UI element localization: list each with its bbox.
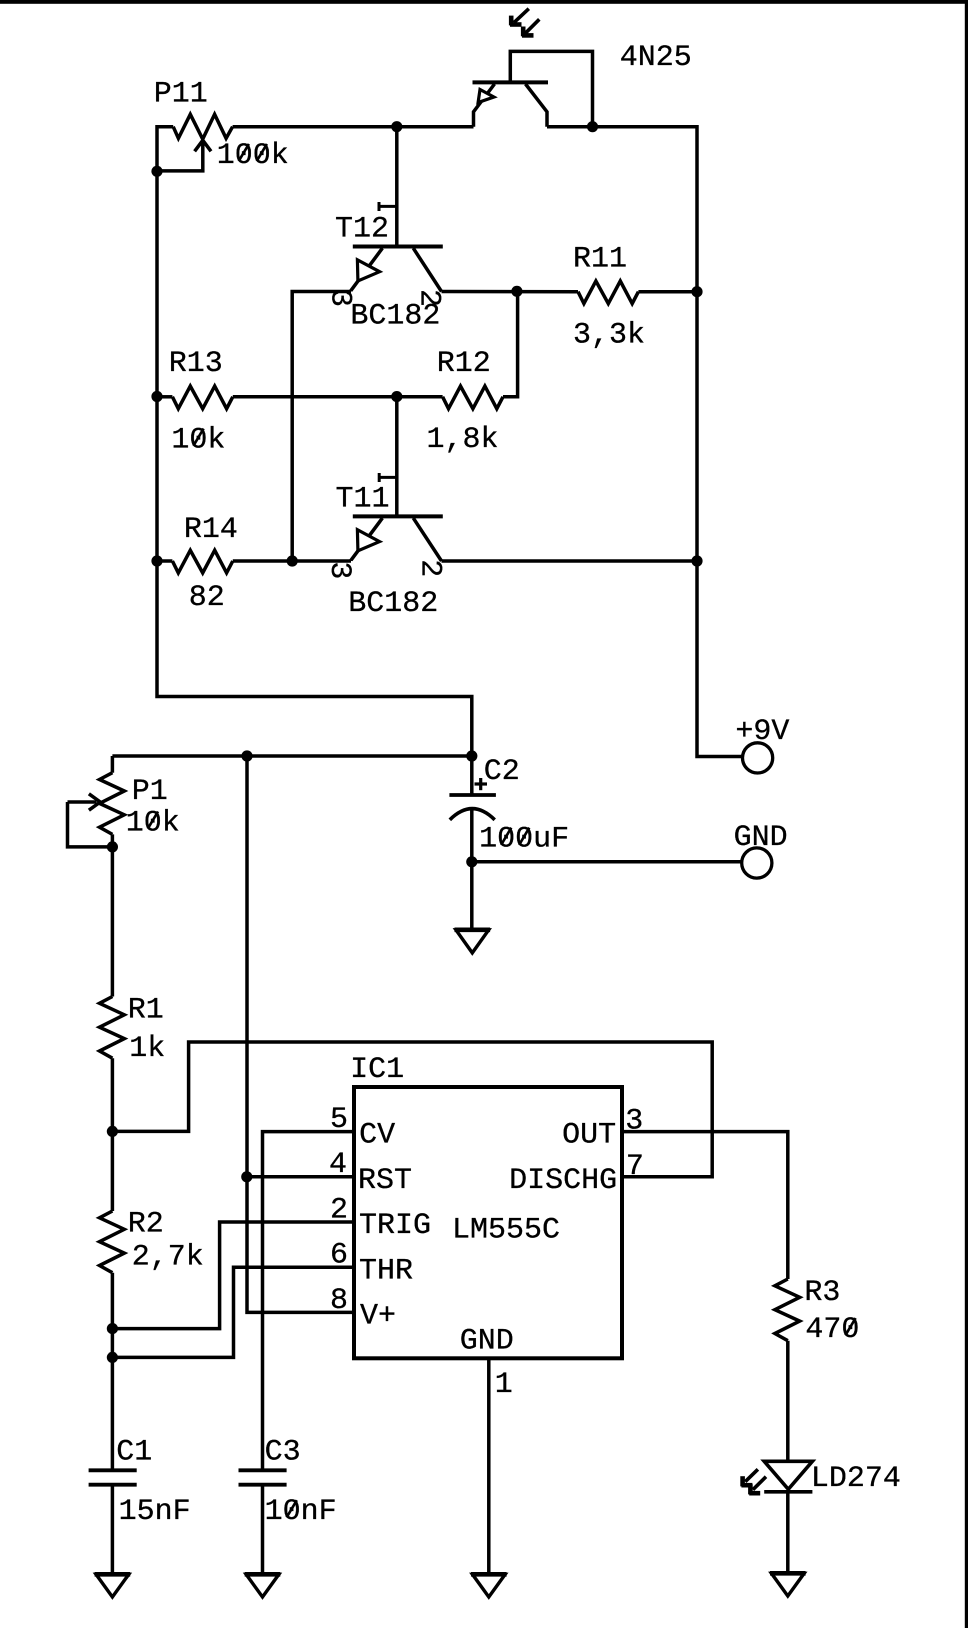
T12 emitter lead [351,248,382,291]
junction dot T12 base node [391,121,402,132]
svg-text:100k: 100k [217,139,289,173]
svg-text:R12: R12 [437,347,491,381]
svg-text:CV: CV [359,1119,395,1153]
resistor R12 zigzag [443,386,503,409]
svg-text:THR: THR [359,1254,413,1288]
junction dot T11 collector / rail [691,555,702,566]
svg-text:DISCHG: DISCHG [509,1164,617,1198]
wire R13 to T11 base node to R12 [233,395,443,399]
wire RST pin stub [247,1175,354,1179]
svg-text:LD274: LD274 [811,1462,901,1496]
terminal circle +9V [743,743,773,773]
potentiometer P1 top lead [111,756,115,773]
P1 bottom lead [111,834,115,996]
junction dot supply vertical node [241,750,252,761]
T11 base tick [378,473,381,482]
P11 wiper tie wire [157,142,203,171]
resistor R13 zigzag [172,386,232,409]
4N25 collector lead [526,84,548,127]
svg-text:3: 3 [625,1105,643,1139]
capacitor C3 top plate [239,1468,287,1472]
svg-text:TRIG: TRIG [359,1209,431,1243]
junction dot RST junction [241,1171,252,1182]
T11 pin number 3 (rotated) [322,561,356,579]
ground symbol under IC [472,1574,505,1597]
svg-text:R14: R14 [184,513,238,547]
R1 bottom lead [111,1058,115,1211]
IC1 box [354,1087,622,1358]
T11 emitter arrow [357,530,379,551]
svg-text:GND: GND [734,821,788,855]
svg-text:3,3k: 3,3k [573,319,645,353]
potentiometer P1 zigzag [100,773,125,835]
junction dot C2 top node [466,750,477,761]
LED light arrow 1 head [740,1476,745,1486]
wire OUT pin to R3 [622,1132,788,1279]
svg-text:4N25: 4N25 [620,41,692,75]
T12 pin number 3 (rotated) [322,289,356,307]
P1 wiper arrow shaft [68,800,97,804]
capacitor C1 bottom plate [89,1483,137,1487]
slash in second zero of 100uF [519,828,529,845]
slash in zero of 470 [845,1318,855,1335]
junction dot R1/R2 node [107,1126,118,1137]
svg-text:2: 2 [330,1193,348,1227]
svg-text:+9V: +9V [735,715,789,749]
svg-text:15nF: 15nF [119,1495,191,1529]
wire CV pin stub to C3 [263,1132,355,1471]
junction dot R13 left / rail [151,391,162,402]
svg-text:6: 6 [330,1239,348,1273]
LED LD274 triangle [764,1461,812,1489]
svg-text:82: 82 [189,581,225,615]
junction dot T12 emitter / R14 wire [287,555,298,566]
svg-text:1: 1 [495,1368,513,1402]
P11 wiper arrowhead [195,140,211,151]
R3 bottom lead [786,1341,790,1462]
svg-text:7: 7 [626,1150,644,1184]
wire T11 collector to right rail [442,559,698,563]
svg-text:T12: T12 [335,212,389,246]
capacitor C2 top plate [449,793,496,797]
slash in first zero of 100k [239,144,249,161]
svg-text:V+: V+ [360,1300,396,1334]
wire supply node down to V+ pin [247,756,354,1312]
svg-text:OUT: OUT [562,1119,616,1153]
svg-text:4: 4 [329,1148,347,1182]
svg-text:1,8k: 1,8k [427,423,499,457]
capacitor C2 top lead [470,756,474,795]
junction dot THR junction [107,1352,118,1363]
T11 base wire from R13/R12 node [395,397,399,517]
LED light arrow 2 shaft [753,1477,766,1490]
svg-text:10k: 10k [126,807,180,841]
wire THR link [112,1267,354,1357]
T11 pin number 2 (rotated) [412,559,446,577]
svg-text:IC1: IC1 [350,1053,404,1087]
svg-text:2,7k: 2,7k [132,1241,204,1275]
svg-text:R1: R1 [128,994,164,1028]
wire 4N25 collector to right rail and down to +9V [547,127,743,757]
T12 pin number 2 (rotated) [412,289,446,307]
capacitor C1 top plate [89,1468,137,1472]
resistor R14 zigzag [172,550,232,573]
T11 base tick horizontal [379,476,397,479]
slash in second zero of 100k [257,144,267,161]
junction dot T12 collector / R12 node [511,286,522,297]
junction dot R11 right / rail [691,286,702,297]
T11 collector lead [413,518,441,561]
C2 plus sign [475,782,488,785]
wire T12 emitter to R14 node [292,292,351,562]
wire supply node horizontal [112,754,471,758]
svg-text:R13: R13 [169,347,223,381]
R2 bottom lead [111,1273,115,1471]
svg-text:R2: R2 [128,1208,164,1242]
svg-text:P11: P11 [154,77,208,111]
ground symbol under C1 [96,1574,129,1597]
slash in zero of 10nF [287,1500,297,1517]
svg-text:P1: P1 [132,775,168,809]
svg-text:GND: GND [460,1325,514,1359]
slash in zero of 10k R13 [193,429,203,446]
svg-text:C3: C3 [265,1436,301,1470]
wire R11 right end [638,290,697,294]
transistor T11 base bar [353,514,443,518]
wire TRIG link [112,1222,354,1329]
C2 ground lead [470,862,474,930]
wire R14 to T11 emitter [233,559,351,563]
resistor R11 zigzag [578,281,638,304]
svg-text:3: 3 [322,561,356,579]
svg-text:8: 8 [330,1284,348,1318]
border top bar [0,0,968,4]
svg-text:LM555C: LM555C [452,1214,560,1248]
wire T12 collector to R11 [442,290,579,294]
C1 bottom lead [111,1485,115,1574]
LED light arrow 1 shaft [745,1469,758,1481]
C2 bottom lead [470,810,474,862]
wire R13 left lead [157,395,172,399]
svg-text:10nF: 10nF [265,1495,337,1529]
wire R12 right end up to T12 collector node [503,291,518,397]
4N25 light arrow 2 shaft [525,19,540,34]
LED light arrow 2 head [748,1484,753,1494]
terminal circle GND [742,848,772,878]
wire P11 to 4N25 emitter [233,125,474,129]
junction dot P11 wiper / left rail [151,166,162,177]
junction dot T11 base node [391,391,402,402]
resistor R3 zigzag [775,1279,800,1341]
svg-text:R11: R11 [573,242,627,276]
ground symbol under LED [771,1573,804,1596]
svg-text:1k: 1k [129,1032,165,1066]
capacitor C2 bottom plate (curved) [450,809,495,820]
T12 base wire from top node [395,127,399,247]
svg-text:100uF: 100uF [479,823,569,857]
T12 collector lead [413,248,441,291]
svg-text:BC182: BC182 [348,587,438,621]
junction dot 4N25 collector node [587,121,598,132]
ground symbol under C3 [246,1574,279,1597]
svg-text:C1: C1 [116,1436,152,1470]
4N25 base-collector loop wire [510,51,592,126]
resistor R1 zigzag [100,997,125,1059]
4N25 emitter lead [474,84,495,127]
svg-text:5: 5 [330,1103,348,1137]
border right bar [965,0,968,1628]
wire left rail (P11 left terminal down to bottom-left corner run) [157,127,472,756]
junction dot R14 left / rail [151,555,162,566]
T12 base tick horizontal [379,205,397,208]
svg-text:C2: C2 [484,755,520,789]
svg-text:T11: T11 [336,483,390,517]
4N25 light arrow 1 head [509,16,514,26]
T12 base tick [378,202,381,211]
svg-text:10k: 10k [171,424,225,458]
svg-text:2: 2 [412,289,446,307]
capacitor C3 bottom plate [239,1483,287,1487]
IC ground stub [487,1358,491,1574]
4N25 emitter arrow [478,90,494,103]
junction dot TRIG junction [107,1323,118,1334]
wire R14 left lead [157,559,172,563]
P1 wiper arrowhead [89,794,100,810]
slash in first zero of 100uF [501,828,511,845]
slash in zero of 10k P1 [148,812,158,829]
svg-text:2: 2 [412,559,446,577]
potentiometer P11 zigzag [173,114,232,139]
4N25 phototransistor base bar [473,80,549,84]
wire R1/R2 node to DISCHG loop [112,1042,712,1177]
4N25 light arrow 2 head [521,27,526,37]
T11 emitter lead [351,518,382,561]
junction dot C2 bottom node [466,856,477,867]
LED LD274 cathode bar [764,1490,812,1494]
svg-text:470: 470 [805,1313,859,1347]
T12 emitter arrow [357,260,379,281]
4N25 light arrow 1 shaft [514,9,529,23]
svg-text:RST: RST [358,1164,412,1198]
resistor R2 zigzag [100,1211,125,1273]
ground symbol under C2 [456,930,489,953]
junction dot P1 wiper / bottom [107,841,118,852]
P1 wiper tie wire [68,802,113,847]
wire C2 bottom to GND terminal [472,860,742,864]
C3 bottom lead [261,1485,265,1574]
svg-text:R3: R3 [804,1276,840,1310]
transistor T12 base bar [353,245,443,249]
LED cathode lead [786,1492,790,1573]
